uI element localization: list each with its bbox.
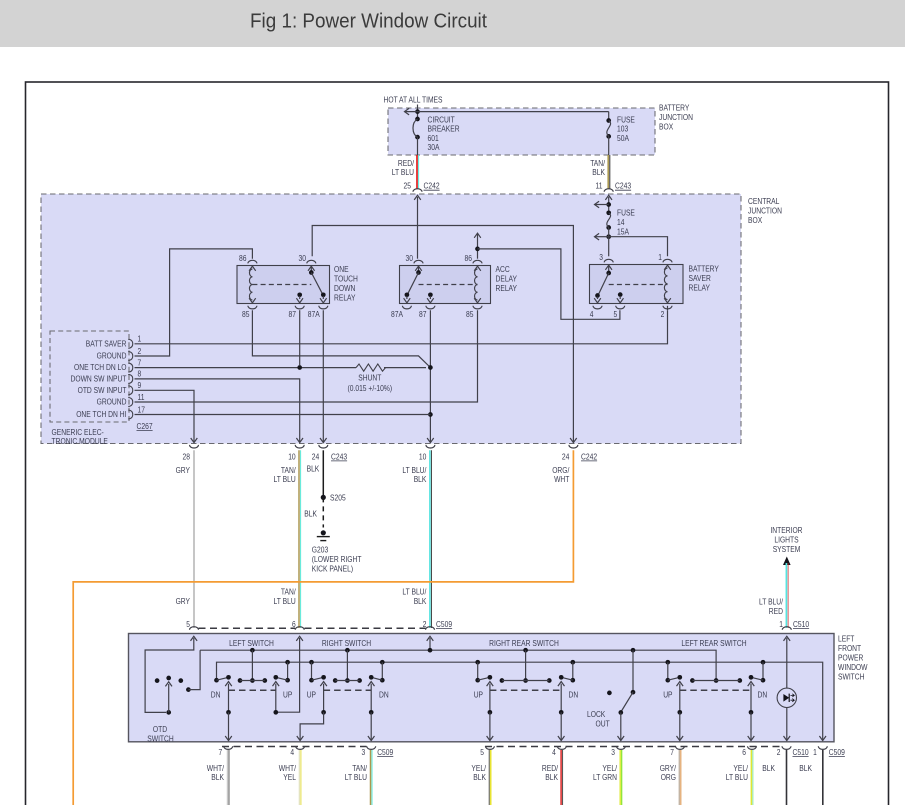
svg-text:DOWN: DOWN [334, 284, 355, 293]
svg-text:11: 11 [596, 182, 603, 191]
svg-text:25: 25 [404, 182, 412, 191]
svg-text:TAN/: TAN/ [281, 466, 296, 475]
svg-text:10: 10 [419, 452, 427, 461]
svg-text:TAN/: TAN/ [352, 764, 367, 773]
module pin 2 GROUND [97, 347, 142, 361]
svg-text:OUT: OUT [596, 719, 610, 728]
svg-text:RIGHT SWITCH: RIGHT SWITCH [322, 639, 371, 648]
svg-text:DN: DN [211, 690, 221, 699]
svg-text:15A: 15A [617, 228, 630, 237]
svg-text:G203: G203 [312, 546, 329, 555]
svg-text:6: 6 [742, 748, 746, 757]
wire RED/LT BLU [392, 155, 419, 189]
wire feed bus [200, 648, 716, 681]
wire one touch relay pin 87 to shunt node [297, 310, 302, 370]
connector C509 pin 3 / wire TAN/LT BLU [345, 746, 394, 805]
svg-text:17: 17 [138, 405, 146, 414]
svg-text:JUNCTION: JUNCTION [748, 207, 782, 216]
wire C243 feed into CJB [605, 195, 612, 213]
wire OTD contact to feed bus [188, 650, 200, 689]
svg-text:OTD: OTD [153, 725, 167, 734]
battery junction box [388, 104, 693, 156]
svg-text:WHT: WHT [554, 475, 569, 484]
connector C510 pin 6 / wire YEL/LT BLU [726, 746, 757, 805]
wire module pin 17 to shunt node [135, 414, 431, 416]
svg-text:BATTERY: BATTERY [659, 104, 690, 113]
svg-text:SYSTEM: SYSTEM [773, 545, 801, 554]
svg-text:HOT AT ALL TIMES: HOT AT ALL TIMES [384, 96, 443, 105]
wire fuse to box edge [608, 136, 610, 155]
svg-text:RED/: RED/ [398, 159, 415, 168]
svg-text:DOWN SW INPUT: DOWN SW INPUT [71, 375, 127, 384]
svg-text:BATTERY: BATTERY [689, 264, 720, 273]
svg-text:BLK: BLK [304, 509, 317, 518]
svg-text:ACC: ACC [496, 265, 510, 274]
svg-text:UP: UP [283, 690, 292, 699]
svg-text:1: 1 [779, 620, 783, 629]
svg-text:10: 10 [288, 452, 296, 461]
switch RIGHT REAR SWITCH [474, 639, 579, 715]
svg-text:2: 2 [661, 310, 665, 319]
switch LOCK OUT [587, 650, 635, 728]
wire module pin 2 ground to one touch relay pin 86 [135, 249, 253, 356]
wire one touch relay pin 85 jumper [252, 310, 430, 367]
svg-text:86: 86 [239, 254, 247, 263]
wire right switch DN to pin 3 exit [368, 712, 375, 740]
svg-text:LT BLU: LT BLU [392, 168, 414, 177]
svg-text:86: 86 [465, 254, 473, 263]
svg-text:JUNCTION: JUNCTION [659, 113, 693, 122]
svg-text:BLK: BLK [799, 764, 812, 773]
connector C510 pin 7 / wire GRY/ORG [660, 746, 685, 805]
central junction box [41, 194, 782, 444]
wire right rear switch UP to pin 5 exit [487, 712, 494, 740]
wire contact bus to C509 pin 1 BLK exit [217, 660, 827, 741]
svg-text:7: 7 [138, 358, 142, 367]
svg-text:14: 14 [617, 218, 625, 227]
svg-text:ONE: ONE [334, 265, 349, 274]
ground G203 [312, 530, 362, 573]
connector C509 pin 7 / wire WHT/BLK [207, 746, 233, 805]
connector C509 pin 6 [295, 627, 304, 630]
svg-text:UP: UP [663, 690, 672, 699]
svg-text:YEL/: YEL/ [602, 764, 617, 773]
svg-text:50A: 50A [617, 134, 630, 143]
wire TAN/BLK [590, 155, 610, 189]
connector C509 pin 1 / wire BLK [799, 746, 845, 805]
circuit breaker 601 30A [413, 115, 460, 152]
svg-text:RELAY: RELAY [496, 284, 518, 293]
svg-text:LEFT REAR SWITCH: LEFT REAR SWITCH [681, 639, 746, 648]
svg-text:OTD SW INPUT: OTD SW INPUT [78, 386, 127, 395]
svg-text:24: 24 [312, 452, 320, 461]
svg-text:BREAKER: BREAKER [428, 125, 460, 134]
svg-text:UP: UP [474, 690, 483, 699]
generic electronic module [50, 331, 153, 446]
switch OTD SWITCH [147, 676, 190, 744]
connector C510 pin 3 / wire YEL/LT GRN [593, 746, 625, 805]
svg-text:ORG/: ORG/ [552, 466, 570, 475]
wire right switch UP to pin 4 exit [297, 712, 324, 740]
svg-text:DELAY: DELAY [496, 274, 518, 283]
wire power bus to relays pin 30 and ORG/WHT exit [312, 226, 577, 443]
svg-text:30: 30 [406, 254, 414, 263]
svg-text:WHT/: WHT/ [207, 764, 225, 773]
svg-text:S205: S205 [330, 493, 346, 502]
wire LT BLU/BLK [402, 450, 452, 629]
wire GRY [176, 450, 194, 629]
relay K1 ONE TOUCH DOWN RELAY [237, 254, 358, 319]
svg-text:LEFT SWITCH: LEFT SWITCH [229, 639, 274, 648]
svg-text:C243: C243 [615, 182, 632, 191]
connector C242 pin 25 [404, 182, 441, 192]
svg-text:ONE TCH DN LO: ONE TCH DN LO [74, 363, 127, 372]
svg-text:87: 87 [419, 310, 427, 319]
figure title header [0, 0, 905, 47]
svg-text:C510: C510 [793, 748, 810, 757]
wire hot feed [415, 105, 420, 120]
wire module pin 1 to battery saver relay pin 2 [135, 310, 668, 344]
svg-text:RELAY: RELAY [689, 283, 711, 292]
wire feed bus to fuse 103 [405, 108, 609, 120]
svg-text:WHT/: WHT/ [279, 764, 297, 773]
svg-text:1: 1 [658, 253, 662, 262]
wire right rear switch DN to pin 4 exit [558, 712, 565, 740]
module pin 11 GROUND [97, 393, 145, 407]
connector C243 pin 24 BLK exit [312, 445, 348, 461]
wire breaker to box edge [417, 137, 419, 155]
wire LT BLU/RED to interior lights [759, 557, 791, 629]
node INTERIOR LIGHTS SYSTEM [770, 526, 802, 554]
svg-text:GRY: GRY [176, 597, 191, 606]
left front power window switch [129, 634, 868, 742]
svg-text:RED: RED [769, 607, 783, 616]
module pin 1 BATT SAVER [86, 335, 142, 349]
connector C510 pin 2 / wire BLK [762, 746, 809, 805]
svg-text:87: 87 [289, 310, 297, 319]
svg-text:BLK: BLK [414, 597, 427, 606]
resistor SHUNT 0.015 ohm [348, 364, 393, 393]
svg-text:BLK: BLK [545, 773, 558, 782]
connector C509 pin 2 [426, 627, 435, 630]
svg-text:FUSE: FUSE [617, 209, 635, 218]
svg-text:ONE TCH DN HI: ONE TCH DN HI [76, 410, 126, 419]
svg-text:CIRCUIT: CIRCUIT [428, 115, 455, 124]
wire module pin 7 shunt line [135, 367, 427, 369]
connector C510 bottom dashed line [485, 746, 782, 748]
svg-text:(0.015 +/-10%): (0.015 +/-10%) [348, 384, 393, 393]
svg-text:(LOWER RIGHT: (LOWER RIGHT [312, 555, 362, 564]
svg-text:C242: C242 [581, 452, 598, 461]
svg-text:YEL/: YEL/ [471, 764, 486, 773]
wire BLK to splice S205 [307, 450, 324, 497]
wire one touch relay pin 87A to BLK exit [320, 310, 327, 442]
fuse 103 50A [606, 115, 635, 143]
svg-text:RIGHT REAR SWITCH: RIGHT REAR SWITCH [489, 639, 559, 648]
svg-text:ORG: ORG [661, 773, 676, 782]
svg-text:TOUCH: TOUCH [334, 274, 358, 283]
svg-text:1: 1 [813, 748, 817, 757]
svg-text:C243: C243 [331, 452, 348, 461]
svg-text:87A: 87A [308, 310, 321, 319]
svg-text:BLK: BLK [762, 764, 775, 773]
relay K3 BATTERY SAVER RELAY [590, 253, 720, 319]
wire ACC relay pin 86 branch [474, 233, 620, 319]
wire pin 2 LT BLU/BLK into feed bus [427, 636, 434, 648]
svg-text:GROUND: GROUND [97, 352, 127, 361]
svg-text:4: 4 [590, 310, 594, 319]
switch RIGHT SWITCH [307, 639, 389, 715]
svg-text:KICK PANEL): KICK PANEL) [312, 565, 354, 574]
svg-text:LT BLU/: LT BLU/ [402, 587, 427, 596]
svg-text:3: 3 [599, 253, 603, 262]
svg-text:INTERIOR: INTERIOR [770, 526, 802, 535]
svg-text:FRONT: FRONT [838, 644, 861, 653]
wire pin 6 TAN/LT BLU into left switch UP [278, 636, 303, 712]
svg-text:WINDOW: WINDOW [838, 663, 868, 672]
node fuse 14 output junction [595, 228, 612, 257]
svg-text:601: 601 [428, 134, 440, 143]
svg-text:LT BLU/: LT BLU/ [759, 597, 784, 606]
svg-text:LT GRN: LT GRN [593, 773, 617, 782]
svg-text:DN: DN [569, 690, 579, 699]
svg-text:SAVER: SAVER [689, 274, 711, 283]
svg-text:POWER: POWER [838, 653, 864, 662]
svg-text:BATT SAVER: BATT SAVER [86, 339, 127, 348]
svg-text:CENTRAL: CENTRAL [748, 197, 780, 206]
svg-text:LT BLU/: LT BLU/ [402, 466, 427, 475]
svg-text:BLK: BLK [414, 475, 427, 484]
svg-text:LT BLU: LT BLU [726, 773, 748, 782]
module pin 9 OTD SW INPUT [78, 381, 142, 395]
connector C242 pin 24 ORG/WHT exit [562, 445, 598, 461]
svg-text:LEFT: LEFT [838, 634, 854, 643]
node fuse 14 feed junction [595, 201, 612, 208]
svg-text:GROUND: GROUND [97, 398, 127, 407]
svg-text:Fig 1: Power Window Circuit: Fig 1: Power Window Circuit [250, 11, 487, 33]
switch LEFT REAR SWITCH [663, 639, 767, 715]
wire BLK splice to ground [304, 497, 323, 527]
svg-text:5: 5 [614, 310, 618, 319]
svg-text:YEL/: YEL/ [733, 764, 748, 773]
wire TAN/LT BLU [274, 450, 301, 629]
svg-text:SWITCH: SWITCH [147, 734, 174, 743]
svg-text:2: 2 [138, 347, 142, 356]
wire module pin 8 to TAN/LT BLU exit [135, 379, 304, 443]
svg-text:GRY: GRY [176, 466, 191, 475]
svg-text:TRONIC MODULE: TRONIC MODULE [52, 437, 108, 446]
svg-text:5: 5 [480, 748, 484, 757]
connector C509 top dashed line [199, 627, 426, 629]
connector pin 10 LT BLU/BLK exit [419, 445, 435, 461]
svg-text:TAN/: TAN/ [590, 159, 605, 168]
LED switch illumination [777, 636, 796, 740]
wire C242 feed into CJB [414, 195, 421, 258]
wire battery saver relay pin 2 lead [667, 306, 669, 310]
connector C243 pin 11 [596, 182, 632, 192]
svg-text:24: 24 [562, 452, 570, 461]
svg-text:TAN/: TAN/ [281, 587, 296, 596]
svg-text:30: 30 [299, 254, 307, 263]
connector C509 pin 4 / wire WHT/YEL [279, 746, 305, 805]
svg-text:7: 7 [219, 748, 223, 757]
svg-text:YEL: YEL [283, 773, 296, 782]
wire ORG/WHT [73, 450, 573, 805]
fuse 14 15A [606, 209, 635, 237]
wire ACC relay pin 87 to LT BLU/BLK exit [427, 310, 434, 442]
connector pin 10 TAN/LT BLU exit [288, 445, 304, 461]
wire fuse 14 to battery saver relay pin 1 [609, 237, 668, 257]
svg-text:DN: DN [758, 690, 768, 699]
svg-text:LT BLU: LT BLU [345, 773, 367, 782]
svg-text:30A: 30A [428, 143, 441, 152]
wire module pin 11 ground to ACC relay pin 85 [135, 310, 478, 402]
wire left rear switch DN to pin 6 exit [748, 712, 755, 740]
svg-text:RELAY: RELAY [334, 293, 356, 302]
wire left rear switch UP to pin 7 exit [677, 712, 684, 740]
connector pin 28 GRY exit [183, 445, 199, 461]
svg-text:BOX: BOX [659, 123, 674, 132]
wire left switch DN to pin 7 exit [225, 712, 232, 740]
wire module pin 9 to GRY exit [135, 390, 198, 442]
svg-text:SWITCH: SWITCH [838, 672, 865, 681]
svg-text:2: 2 [777, 748, 781, 757]
svg-text:GENERIC ELEC-: GENERIC ELEC- [52, 428, 105, 437]
svg-text:FUSE: FUSE [617, 115, 635, 124]
svg-text:LIGHTS: LIGHTS [774, 535, 798, 544]
svg-text:87A: 87A [391, 310, 404, 319]
svg-text:28: 28 [183, 452, 191, 461]
module pin 7 ONE TCH DN LO [74, 358, 142, 372]
svg-text:RED/: RED/ [542, 764, 559, 773]
svg-text:LT BLU: LT BLU [274, 597, 296, 606]
svg-text:3: 3 [611, 748, 615, 757]
connector C509 bottom dashed line [222, 746, 367, 748]
module pin 17 ONE TCH DN HI [76, 405, 145, 419]
svg-text:BLK: BLK [592, 168, 605, 177]
svg-text:3: 3 [362, 748, 366, 757]
connector C510 pin 5 / wire YEL/BLK [471, 746, 494, 805]
relay K2 ACC DELAY RELAY [391, 254, 518, 319]
module pin 8 DOWN SW INPUT [71, 370, 142, 384]
svg-text:4: 4 [552, 748, 556, 757]
svg-text:SHUNT: SHUNT [358, 373, 381, 382]
svg-text:103: 103 [617, 125, 629, 134]
svg-text:C509: C509 [377, 748, 394, 757]
svg-text:1: 1 [138, 335, 142, 344]
svg-text:BOX: BOX [748, 216, 763, 225]
svg-text:C509: C509 [829, 748, 846, 757]
svg-text:C510: C510 [793, 620, 810, 629]
splice S205 [321, 493, 346, 502]
svg-text:C509: C509 [436, 620, 453, 629]
connector C510 pin 4 / wire RED/BLK [542, 746, 566, 805]
svg-text:UP: UP [307, 690, 316, 699]
svg-text:7: 7 [670, 748, 674, 757]
connector C509 pin 5 [190, 627, 199, 630]
wire pin 5 GRY into OTD switch [145, 636, 197, 712]
svg-text:DN: DN [379, 690, 389, 699]
svg-text:9: 9 [138, 381, 142, 390]
svg-text:BLK: BLK [473, 773, 486, 782]
svg-text:C242: C242 [424, 182, 441, 191]
node HOT AT ALL TIMES [384, 96, 443, 105]
svg-text:4: 4 [290, 748, 294, 757]
wire lock out to pin 3 exit [618, 713, 625, 741]
svg-text:BLK: BLK [307, 464, 320, 473]
svg-text:8: 8 [138, 370, 142, 379]
svg-text:BLK: BLK [211, 773, 224, 782]
connector C510 pin 1 [779, 620, 809, 630]
svg-text:GRY/: GRY/ [660, 764, 677, 773]
svg-text:C267: C267 [137, 422, 154, 431]
svg-text:LOCK: LOCK [587, 710, 606, 719]
switch LEFT SWITCH [211, 639, 292, 715]
svg-text:85: 85 [466, 310, 474, 319]
svg-text:85: 85 [242, 310, 250, 319]
svg-text:LT BLU: LT BLU [274, 475, 296, 484]
svg-text:11: 11 [138, 393, 145, 402]
